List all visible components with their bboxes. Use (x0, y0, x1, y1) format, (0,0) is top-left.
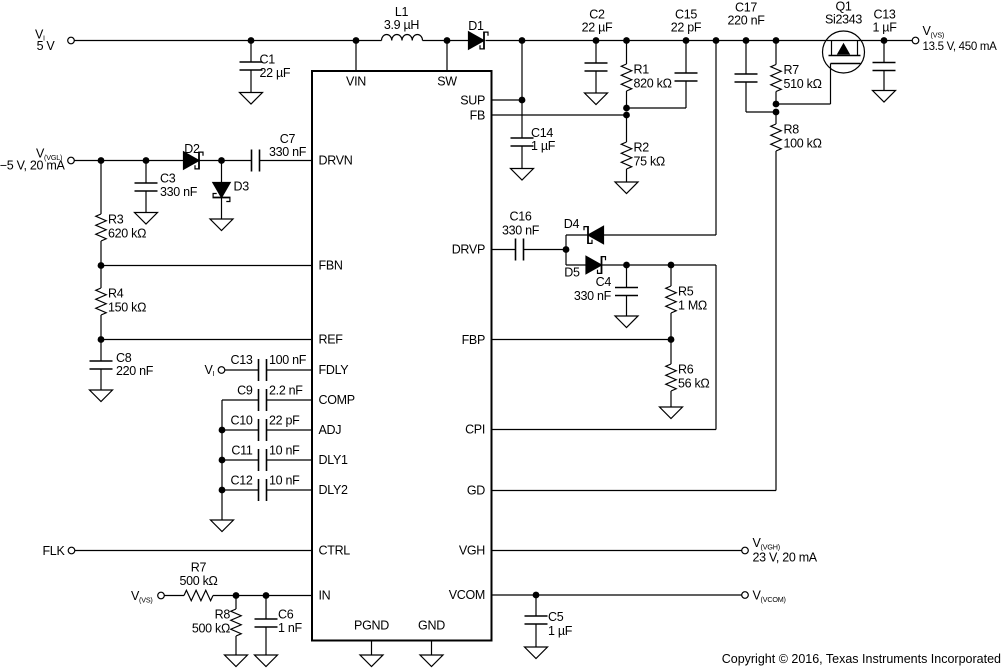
ground R2 (615, 182, 638, 194)
wire C16 to node (524, 249, 567, 251)
ground PGND (360, 655, 383, 667)
svg-text:22 µF: 22 µF (582, 21, 613, 35)
node SUP rail tap (519, 37, 526, 44)
svg-text:C5: C5 (548, 610, 564, 624)
node FBN node (98, 262, 105, 269)
svg-text:D2: D2 (184, 142, 200, 156)
svg-text:R6: R6 (678, 363, 694, 377)
terminal V_(VGH) output (742, 547, 749, 554)
svg-text:75 kΩ: 75 kΩ (634, 155, 665, 169)
wire C4 to ground (626, 295, 628, 316)
svg-text:330 nF: 330 nF (502, 224, 540, 238)
svg-text:C13: C13 (230, 353, 252, 367)
wire R5 to FBP (670, 313, 672, 340)
wire cap bus (221, 400, 223, 520)
wire C1 to ground (250, 70, 252, 93)
node R5 tap (668, 262, 675, 269)
wire D5 row to CPI (715, 265, 717, 430)
svg-text:820 kΩ: 820 kΩ (634, 77, 672, 91)
capacitor C13 (FDLY) (259, 359, 267, 381)
wire C9 to COMP (267, 399, 313, 401)
terminal V_I FDLY terminal (218, 367, 225, 374)
wire C11 to DLY1 (267, 459, 313, 461)
diode D3 (213, 183, 231, 202)
capacitor C13 plates (873, 63, 896, 71)
node DRVP node (563, 246, 570, 253)
node bus DLY1 node (219, 457, 226, 464)
svg-text:SW: SW (437, 75, 457, 89)
wire bus to C9 (222, 399, 259, 401)
svg-text:220 nF: 220 nF (727, 14, 765, 28)
capacitor C1 plates (240, 62, 263, 70)
resistor R7 (IN divider) (184, 590, 213, 600)
svg-text:500 kΩ: 500 kΩ (192, 622, 230, 636)
node FB node (623, 112, 630, 119)
ground C3 (135, 213, 158, 225)
capacitor C2 plates (585, 63, 608, 71)
wire to D5 anode (566, 264, 586, 266)
svg-text:220 nF: 220 nF (116, 364, 154, 378)
ground C13 (873, 91, 896, 103)
svg-text:GND: GND (418, 619, 445, 633)
capacitor C10 (259, 419, 267, 441)
wire R6 to ground (670, 391, 672, 407)
wire VIN stub (355, 41, 357, 72)
wire C2 to ground (595, 71, 597, 94)
terminal V_I input (68, 37, 75, 44)
svg-text:FB: FB (470, 109, 485, 123)
wire FB to R2 (626, 115, 628, 142)
wire DRVP node vertical (565, 235, 567, 265)
svg-text:COMP: COMP (319, 393, 355, 407)
wire VCOM pin (492, 594, 742, 596)
wire R8 to ground (235, 636, 237, 655)
node C2 tap (593, 37, 600, 44)
svg-text:330 nF: 330 nF (574, 289, 612, 303)
resistor R5 (666, 286, 676, 313)
svg-text:C17: C17 (735, 1, 757, 15)
wire C17 down (745, 82, 747, 113)
svg-text:2.2 nF: 2.2 nF (269, 384, 303, 398)
wire to D4 cathode (566, 234, 588, 236)
wire rail to D4 (715, 41, 717, 236)
svg-text:22 pF: 22 pF (269, 414, 300, 428)
svg-text:1 µF: 1 µF (548, 624, 573, 638)
terminal V_(VS) IN terminal (158, 592, 165, 599)
svg-text:C4: C4 (596, 275, 612, 289)
svg-text:R7: R7 (784, 63, 800, 77)
ground R6 (660, 407, 683, 419)
ground cap bus (211, 520, 234, 532)
svg-text:C12: C12 (230, 474, 252, 488)
wire FBN pin (101, 265, 312, 267)
terminal V_(VGL) input (68, 157, 75, 164)
svg-text:DRVN: DRVN (319, 154, 353, 168)
capacitor C6 plates (255, 619, 278, 627)
svg-text:ADJ: ADJ (319, 423, 342, 437)
svg-text:C7: C7 (280, 132, 296, 146)
wire GD pin (492, 490, 777, 492)
wire REF pin (101, 339, 312, 341)
node R3 tap (98, 157, 105, 164)
svg-text:C9: C9 (237, 384, 253, 398)
wire C14 to ground (521, 146, 523, 169)
wire R4 to REF (100, 315, 102, 340)
wire VGL rail (75, 160, 252, 162)
node R7 tap (773, 37, 780, 44)
svg-text:22 pF: 22 pF (671, 21, 702, 35)
svg-text:3.9 µH: 3.9 µH (384, 18, 420, 32)
svg-text:C1: C1 (260, 53, 276, 67)
wire R8 to GD row (775, 151, 777, 491)
capacitor C17 plates (735, 74, 758, 82)
svg-text:D5: D5 (564, 266, 580, 280)
svg-text:1 µF: 1 µF (531, 139, 556, 153)
svg-text:R3: R3 (108, 213, 124, 227)
svg-text:100 kΩ: 100 kΩ (784, 137, 822, 151)
wire Q1 gate down (830, 64, 832, 105)
wire R8 node to zigzag (775, 112, 777, 124)
diode D4 (584, 226, 604, 244)
wire C10 to ADJ (267, 429, 313, 431)
wire FB pin (492, 114, 627, 116)
ground R8 (225, 655, 248, 667)
svg-text:330 nF: 330 nF (269, 145, 307, 159)
svg-text:D4: D4 (564, 217, 580, 231)
svg-text:Copyright © 2016, Texas Instru: Copyright © 2016, Texas Instruments Inco… (722, 652, 1001, 666)
diode D1 (469, 32, 489, 50)
svg-text:330 nF: 330 nF (160, 185, 198, 199)
wire to C3 (145, 161, 147, 184)
ground C1 (240, 93, 263, 105)
node bus DLY2 node (219, 487, 226, 494)
wire VGL to R3 (100, 161, 102, 215)
svg-text:Si2343: Si2343 (825, 13, 862, 27)
svg-text:FDLY: FDLY (319, 363, 350, 377)
wire PGND stub (371, 641, 373, 656)
terminal FLK input (68, 547, 75, 554)
wire bus to C10 (222, 429, 259, 431)
wire to D3 (221, 161, 223, 183)
svg-text:DLY2: DLY2 (319, 483, 348, 497)
wire GND stub (431, 641, 433, 656)
capacitor C1 (250, 41, 252, 63)
svg-text:−5 V, 20 mA: −5 V, 20 mA (0, 159, 65, 173)
wire VI to C13 (225, 369, 259, 371)
svg-text:GD: GD (467, 484, 485, 498)
wire C12 to DLY2 (267, 489, 313, 491)
resistor R6 (666, 364, 676, 391)
resistor R2 (621, 142, 631, 169)
wire SW stub (446, 41, 448, 72)
wire C6 to ground (265, 627, 267, 656)
node REF node (98, 336, 105, 343)
svg-text:150 kΩ: 150 kΩ (108, 301, 146, 315)
wire C5 to ground (535, 624, 537, 648)
terminal V_(VS) output (912, 37, 919, 44)
svg-text:R7: R7 (191, 561, 207, 575)
svg-text:620 kΩ: 620 kΩ (108, 227, 146, 241)
wire rail to C15 (685, 41, 687, 74)
node VIN tap (353, 37, 360, 44)
svg-text:C16: C16 (509, 210, 531, 224)
wire C8 to ground (100, 369, 102, 391)
svg-text:C6: C6 (278, 608, 294, 622)
node C5 tap (533, 592, 540, 599)
node C15 tap (683, 37, 690, 44)
node C3 tap (143, 157, 150, 164)
wire C3 to ground (145, 191, 147, 213)
wire R7 to gate node (775, 92, 777, 105)
terminal V_(VCOM) output (742, 592, 749, 599)
ground C2 (585, 93, 608, 105)
wire node to C6 (265, 596, 267, 620)
node C6 node (263, 592, 270, 599)
wire rail to C2 (595, 41, 597, 64)
svg-text:23 V, 20 mA: 23 V, 20 mA (753, 551, 818, 565)
svg-text:C10: C10 (230, 414, 252, 428)
wire rail to R1 (626, 41, 628, 65)
svg-text:D3: D3 (234, 180, 250, 194)
svg-text:R4: R4 (108, 287, 124, 301)
wire REF to C8 (100, 340, 102, 362)
ground C4 (615, 316, 638, 328)
wire D5 cathode row (602, 264, 717, 266)
wire FBN to R4 (100, 266, 102, 289)
svg-text:DRVP: DRVP (452, 243, 485, 257)
svg-text:FBN: FBN (319, 259, 343, 273)
svg-text:FLK: FLK (42, 544, 65, 558)
wire SUP pin (492, 99, 523, 101)
svg-text:1 nF: 1 nF (278, 621, 302, 635)
svg-text:PGND: PGND (354, 619, 389, 633)
resistor R1 (621, 64, 631, 91)
wire VGH pin (492, 550, 742, 552)
ground C5 (525, 647, 548, 659)
wire bus to C12 (222, 489, 259, 491)
ground C8 (90, 390, 113, 402)
resistor R8 (IN divider) (231, 609, 241, 636)
node R1 tap (623, 37, 630, 44)
svg-text:D1: D1 (468, 19, 484, 33)
wire DRVP pin (492, 249, 516, 251)
node D4 rail tap (713, 37, 720, 44)
svg-text:REF: REF (319, 333, 344, 347)
capacitor C7 (252, 150, 260, 172)
op-amp U1 TPS65150 IC body (312, 71, 492, 641)
svg-text:C2: C2 (589, 8, 605, 22)
svg-text:C3: C3 (160, 172, 176, 186)
node C17 tap (743, 37, 750, 44)
wire V_I to L1 (75, 40, 382, 42)
wire rail to R7 (775, 41, 777, 65)
resistor R4 (96, 288, 106, 315)
wire rail to C17 (745, 41, 747, 75)
capacitor C8 plates (90, 361, 113, 369)
svg-text:SUP: SUP (460, 94, 485, 108)
resistor R8 (771, 124, 781, 151)
svg-text:R5: R5 (678, 285, 694, 299)
resistor R3 (96, 214, 106, 241)
wire rail to C13 (883, 41, 885, 63)
svg-text:1 µF: 1 µF (872, 21, 897, 35)
ground C14 (511, 169, 534, 181)
ground D3 (210, 219, 233, 231)
svg-text:C11: C11 (231, 444, 252, 458)
wire node to R8 (235, 596, 237, 610)
svg-text:Q1: Q1 (835, 0, 851, 14)
node SW tap (444, 37, 451, 44)
capacitor C11 (259, 449, 267, 471)
wire R7 to IN pin (213, 595, 312, 597)
wire FLK to CTRL (75, 550, 312, 552)
svg-text:FBP: FBP (462, 333, 485, 347)
wire D1 to VS output (486, 40, 913, 42)
node R1 bottom node (623, 105, 630, 112)
wire rail to C14 (521, 41, 523, 139)
node C1 tap (248, 37, 255, 44)
node bus ADJ node (219, 427, 226, 434)
svg-text:C8: C8 (116, 351, 132, 365)
wire R2 to ground (626, 169, 628, 182)
svg-text:1 MΩ: 1 MΩ (678, 299, 707, 313)
wire D3 to ground (221, 198, 223, 220)
capacitor C4 plates (615, 288, 638, 296)
wire R3 to FBN (100, 241, 102, 266)
wire C13 to FDLY (267, 369, 313, 371)
capacitor C3 plates (135, 183, 158, 191)
ground C6 (255, 655, 278, 667)
wire C15 down (685, 81, 687, 109)
svg-text:C15: C15 (675, 8, 697, 22)
capacitor C9 (259, 389, 267, 411)
wire L1 to D1 (423, 40, 469, 42)
capacitor C14 plates (511, 138, 534, 146)
capacitor C5 plates (525, 616, 548, 624)
node C4 tap (623, 262, 630, 269)
node gate node (773, 101, 780, 108)
svg-text:10 nF: 10 nF (269, 444, 300, 458)
wire C13 to ground (883, 70, 885, 91)
diode D5 (586, 256, 606, 274)
wire C15 to R1 node (627, 107, 687, 109)
wire to C4 (626, 265, 628, 288)
svg-text:10 nF: 10 nF (269, 474, 300, 488)
capacitor C16 (516, 239, 524, 261)
wire gate to node (776, 103, 831, 105)
capacitor C12 (259, 479, 267, 501)
svg-text:56 kΩ: 56 kΩ (678, 377, 709, 391)
svg-text:IN: IN (319, 589, 331, 603)
svg-text:CTRL: CTRL (319, 544, 351, 558)
svg-text:DLY1: DLY1 (319, 453, 348, 467)
node SUP node (519, 97, 526, 104)
svg-text:R2: R2 (634, 141, 650, 155)
svg-text:C13: C13 (873, 8, 895, 22)
svg-text:13.5 V, 450 mA: 13.5 V, 450 mA (923, 41, 998, 53)
svg-text:510 kΩ: 510 kΩ (784, 77, 822, 91)
node FBP node (668, 336, 675, 343)
wire to C5 (535, 595, 537, 616)
svg-text:5 V: 5 V (37, 39, 56, 53)
svg-text:500 kΩ: 500 kΩ (179, 574, 217, 588)
node C13 tap (881, 37, 888, 44)
svg-text:VGH: VGH (459, 544, 485, 558)
svg-text:R1: R1 (634, 63, 650, 77)
wire C17 to R8 node (746, 111, 776, 113)
svg-text:L1: L1 (395, 5, 409, 19)
svg-text:CPI: CPI (465, 423, 485, 437)
svg-text:100 nF: 100 nF (269, 353, 307, 367)
wire D4 anode (604, 234, 717, 236)
node D3 tap (218, 157, 225, 164)
wire VS to R7 (165, 595, 185, 597)
capacitor C15 plates (675, 73, 698, 81)
wire to R5 (670, 265, 672, 286)
svg-text:22 µF: 22 µF (260, 66, 291, 80)
node R8 divider node (233, 592, 240, 599)
transistor Q1 Si2343 (823, 31, 865, 73)
wire bus to C11 (222, 459, 259, 461)
svg-text:R8: R8 (215, 608, 231, 622)
svg-text:VCOM: VCOM (449, 588, 485, 602)
wire R1 to node (626, 91, 628, 108)
diode D2 (184, 152, 204, 170)
inductor L1 (382, 35, 423, 41)
svg-text:VIN: VIN (346, 75, 366, 89)
wire CPI pin (492, 429, 717, 431)
ground GND (420, 655, 443, 667)
wire C7 to DRVN (260, 160, 313, 162)
wire FBP pin (492, 339, 672, 341)
resistor R7 (771, 65, 781, 92)
svg-text:R8: R8 (784, 123, 800, 137)
wire FBP to R6 (670, 340, 672, 365)
node R8 top node (773, 109, 780, 116)
svg-text:C14: C14 (531, 126, 553, 140)
